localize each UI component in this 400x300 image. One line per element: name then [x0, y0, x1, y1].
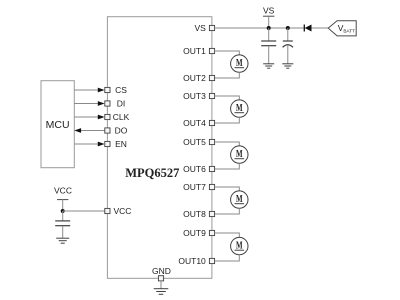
- wire diode to VBATT: [312, 27, 329, 29]
- svg-text:CS: CS: [115, 85, 127, 95]
- svg-text:CLK: CLK: [113, 112, 130, 122]
- svg-text:OUT3: OUT3: [183, 91, 206, 101]
- wire VCC to pin: [63, 210, 105, 212]
- capacitor C3 (VCC decoupling): [55, 211, 70, 238]
- VBATT supply flag: [328, 21, 356, 36]
- ground (C2): [282, 64, 293, 68]
- svg-text:OUT8: OUT8: [183, 209, 206, 219]
- motor M2: [231, 100, 248, 117]
- wire OUT8 to motor M4: [215, 208, 240, 214]
- pin VCC: [105, 206, 132, 216]
- pin OUT7: [183, 182, 214, 192]
- ground (GND pin): [154, 289, 169, 295]
- IC MPQ6527 body: [107, 17, 211, 279]
- wire OUT1 to motor M1: [215, 51, 240, 55]
- svg-text:OUT9: OUT9: [183, 228, 206, 238]
- capacitor C2 (polarized): [283, 28, 293, 64]
- pin CS: [105, 85, 127, 95]
- wire DO: [74, 128, 104, 133]
- net label VCC: [54, 186, 72, 212]
- svg-text:OUT2: OUT2: [183, 73, 206, 83]
- pin CLK: [105, 112, 130, 122]
- wire DI: [74, 101, 104, 106]
- node VS junction 1: [267, 26, 271, 30]
- wire EN: [74, 142, 104, 147]
- svg-text:VS: VS: [263, 6, 275, 16]
- svg-text:OUT5: OUT5: [183, 137, 206, 147]
- wire OUT6 to motor M3: [215, 163, 240, 169]
- wire OUT9 to motor M5: [215, 233, 240, 237]
- svg-text:MCU: MCU: [46, 119, 70, 131]
- pin OUT4: [183, 118, 214, 128]
- pin OUT2: [183, 73, 214, 83]
- ground (C1): [263, 64, 274, 68]
- pin OUT3: [183, 91, 214, 101]
- wire OUT10 to motor M5: [215, 255, 240, 261]
- svg-text:DO: DO: [115, 126, 128, 136]
- svg-text:BATT: BATT: [343, 29, 355, 34]
- pin OUT1: [183, 46, 214, 56]
- capacitor C1: [261, 28, 276, 64]
- MCU block: [41, 81, 74, 168]
- wire GND: [160, 281, 162, 289]
- motor M5: [231, 237, 248, 254]
- pin OUT10: [178, 256, 214, 266]
- svg-text:MPQ6527: MPQ6527: [125, 166, 179, 180]
- wire CS: [74, 88, 104, 93]
- node VCC junction: [61, 209, 65, 213]
- svg-text:VCC: VCC: [54, 186, 72, 196]
- pin DO: [105, 126, 128, 136]
- svg-text:OUT7: OUT7: [183, 182, 206, 192]
- diode D1: [304, 25, 311, 32]
- pin DI: [105, 99, 125, 109]
- pin OUT5: [183, 137, 214, 147]
- wire OUT2 to motor M1: [215, 72, 240, 78]
- svg-text:OUT1: OUT1: [183, 46, 206, 56]
- wire OUT5 to motor M3: [215, 142, 240, 146]
- wire OUT7 to motor M4: [215, 187, 240, 191]
- wire OUT3 to motor M2: [215, 96, 240, 100]
- motor M1: [231, 55, 248, 72]
- pin GND: [152, 266, 171, 281]
- svg-text:VCC: VCC: [114, 206, 132, 216]
- wire OUT4 to motor M2: [215, 117, 240, 123]
- pin OUT8: [183, 209, 214, 219]
- svg-text:OUT4: OUT4: [183, 118, 206, 128]
- svg-text:GND: GND: [152, 266, 171, 276]
- wire CLK: [74, 115, 104, 120]
- svg-text:OUT10: OUT10: [178, 256, 206, 266]
- ground (VCC cap): [56, 238, 69, 243]
- pin OUT6: [183, 164, 214, 174]
- svg-text:OUT6: OUT6: [183, 164, 206, 174]
- svg-text:VS: VS: [194, 23, 206, 33]
- motor M4: [231, 191, 248, 208]
- svg-text:EN: EN: [115, 139, 127, 149]
- wire VS rail: [215, 27, 305, 29]
- net label VS: [263, 6, 275, 29]
- pin OUT9: [183, 228, 214, 238]
- pin VS: [194, 23, 214, 33]
- pin EN: [105, 139, 127, 149]
- IC label MPQ6527: [125, 166, 179, 180]
- svg-text:DI: DI: [117, 99, 126, 109]
- node VS junction 2: [286, 26, 290, 30]
- motor M3: [231, 146, 248, 163]
